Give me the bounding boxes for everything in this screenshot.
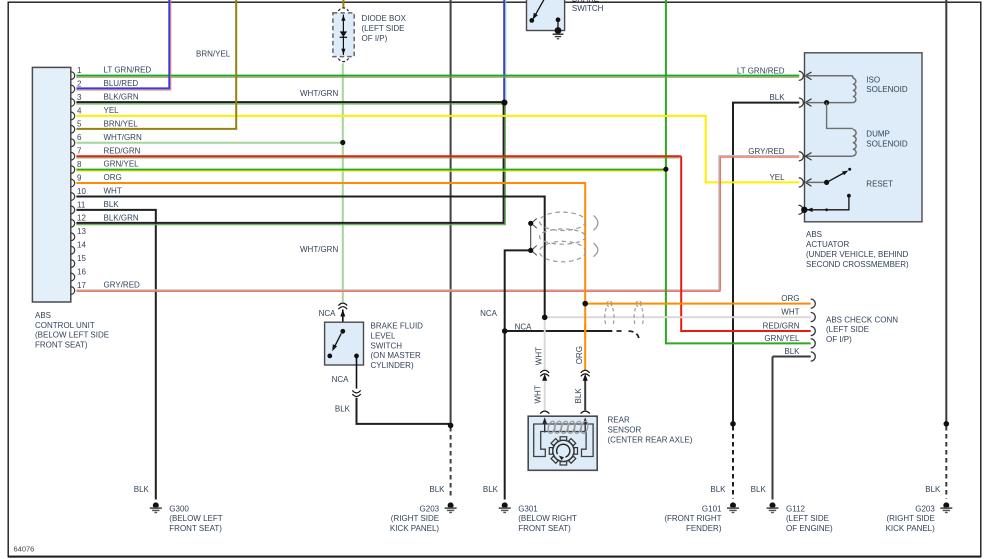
rear sensor box [528,416,597,470]
svg-text:10: 10 [77,187,86,196]
wire BLK shield NCA stub [505,331,639,339]
svg-text:G101: G101 [702,504,722,513]
ABS check connector caption [826,315,898,344]
svg-text:WHT: WHT [534,385,543,403]
junction WHT [542,315,548,321]
svg-text:YEL: YEL [769,173,785,182]
shielded cable twisted pair symbol [540,212,598,262]
svg-text:16: 16 [77,267,86,276]
wire pin5 BRN/YEL up to top edge [76,0,236,129]
svg-text:ACTUATOR: ACTUATOR [806,240,849,249]
wire pin6 WHT/GRN to junction [76,142,342,144]
svg-text:BLK: BLK [784,347,800,356]
NCA labels [319,309,337,318]
ABS actuator box [805,53,923,222]
pin 15 terminal arc and number [71,254,87,267]
pin 9 terminal arc and number [71,173,122,187]
ground G101 at x=733 [664,485,739,533]
svg-text:REAR: REAR [608,416,630,425]
svg-text:FRONT SEAT): FRONT SEAT) [35,341,88,350]
ABS actuator pin GRY/RED [799,152,812,161]
svg-text:8: 8 [77,160,82,169]
junction brake switch BLK/GRN [501,100,507,106]
junction shield drain G301 [502,328,508,334]
pin 17 terminal arc and number [71,281,140,295]
svg-text:(RIGHT SIDE: (RIGHT SIDE [886,514,934,523]
svg-text:BRN/YEL: BRN/YEL [104,119,139,128]
rear sensor caption [608,416,693,445]
svg-text:13: 13 [77,227,86,236]
svg-text:NCA: NCA [515,322,533,331]
svg-text:GRN/YEL: GRN/YEL [764,334,800,343]
svg-text:1: 1 [77,66,82,75]
svg-text:(FRONT RIGHT: (FRONT RIGHT [664,514,721,523]
svg-text:BLK: BLK [104,200,120,209]
svg-text:64076: 64076 [14,545,35,554]
svg-text:KICK PANEL): KICK PANEL) [886,524,936,533]
svg-text:12: 12 [77,214,86,223]
label WHT/GRN upper [300,89,338,98]
wire GRN/YEL vertical upper segment from top edge [665,0,667,172]
svg-text:ORG: ORG [575,346,584,364]
brake switch (top, partially cut) [527,0,565,39]
diode box caption [362,14,407,43]
svg-text:(BELOW LEFT: (BELOW LEFT [169,514,222,523]
junction brake fluid BLK [448,423,454,429]
svg-text:ORG: ORG [781,294,799,303]
wire BLK from ABS check connector down to ground G112 [773,357,811,500]
svg-text:11: 11 [77,200,86,209]
pin 11 terminal arc and number [71,200,119,214]
rear sensor connector caps above box [540,411,590,414]
wire BLK shield drain down to ground G301 [505,250,531,499]
svg-text:YEL: YEL [104,106,120,115]
junction G203 right splice [944,421,950,427]
svg-text:5: 5 [77,120,82,129]
svg-text:(BELOW LEFT SIDE: (BELOW LEFT SIDE [35,331,109,340]
svg-text:FENDER): FENDER) [686,524,722,533]
wire pin7 RED/GRN vertical to ABS check connector [681,156,811,331]
wire pin11 BLK down to ground G300 [76,210,155,500]
dump solenoid [805,103,856,157]
ABS actuator pin YEL with RESET switch [799,168,852,215]
brake fluid level switch caption [371,322,424,370]
wire BLU/GRN from brake switch top edge down to junction [504,0,506,103]
svg-text:ABS: ABS [35,311,51,320]
ABS actuator pin BLK [799,98,853,107]
svg-text:BLK/GRN: BLK/GRN [104,93,139,102]
wire BRN/YEL stub above diode box [342,0,344,8]
svg-text:WHT/GRN: WHT/GRN [300,89,338,98]
ABS check connector wire labels [763,294,801,356]
svg-text:(BELOW RIGHT: (BELOW RIGHT [518,514,577,523]
svg-text:LT GRN/RED: LT GRN/RED [737,67,785,76]
svg-text:BLK: BLK [483,485,499,494]
vertical wire labels WHT WHT ORG BLK [535,347,544,365]
drawing number [14,545,35,554]
svg-text:BLK: BLK [710,485,726,494]
svg-text:ABS CHECK CONN: ABS CHECK CONN [826,315,898,324]
ABS actuator internal labels [866,75,908,188]
wire BLK vertical from top edge down to ground G203 left [450,0,452,499]
shield drain crimp marks [528,218,537,255]
wire WHT vertical down to inline connector [544,317,546,370]
svg-text:CYLINDER): CYLINDER) [371,361,414,370]
svg-text:SENSOR: SENSOR [608,426,642,435]
wire BLK vertical at right edge down to ground G203 right [945,0,947,499]
svg-text:9: 9 [77,173,82,182]
ground G301 at x=504.7 [483,485,577,533]
svg-text:GRY/RED: GRY/RED [748,147,785,156]
svg-text:SWITCH: SWITCH [371,341,403,350]
svg-text:RED/GRN: RED/GRN [763,322,800,331]
svg-text:G203: G203 [915,504,935,513]
wire pin10 WHT (drawn dark) right and down to junction [76,197,544,318]
svg-text:BLK/GRN: BLK/GRN [104,213,139,222]
ground G112 at x=772.5 [751,485,833,533]
pin 5 terminal arc and number [71,119,138,133]
svg-text:2: 2 [77,79,82,88]
wire ORG overlay at drain crossing [584,324,586,338]
wire pin17 GRY/RED to ABS actuator DUMP solenoid [76,156,799,292]
label BRN/YEL [196,50,231,59]
svg-text:SOLENOID: SOLENOID [866,85,908,94]
svg-text:(LEFT SIDE: (LEFT SIDE [786,514,829,523]
svg-text:CONTROL UNIT: CONTROL UNIT [35,321,95,330]
svg-text:G203: G203 [420,504,440,513]
wire BLK from ORG inline connector down to rear sensor [584,378,586,411]
ABS check connector terminals [811,299,816,361]
ABS actuator caption [806,230,909,269]
svg-text:OF ENGINE): OF ENGINE) [786,524,833,533]
pin 12 terminal arc and number [71,213,139,227]
pin 14 terminal arc and number [71,241,87,255]
svg-text:SWITCH: SWITCH [572,4,604,13]
svg-text:BLK: BLK [429,485,445,494]
wire WHT from inline connector down to rear sensor [544,378,546,411]
pin 3 terminal arc and number [71,93,139,107]
svg-text:LT GRN/RED: LT GRN/RED [104,66,152,75]
brake fluid level switch box [325,322,364,388]
svg-text:(LEFT SIDE: (LEFT SIDE [362,24,405,33]
svg-text:NCA: NCA [319,309,337,318]
svg-text:BLU/RED: BLU/RED [104,79,139,88]
svg-text:7: 7 [77,147,82,156]
svg-text:WHT: WHT [781,308,799,317]
svg-text:BLK: BLK [769,93,785,102]
inline connector at x=544.7 above rear sensor [540,370,549,381]
svg-text:WHT: WHT [535,347,544,365]
svg-text:BRAKE FLUID: BRAKE FLUID [371,322,424,331]
svg-text:BLK: BLK [925,485,941,494]
inline connector NCA below brake fluid level switch [352,390,360,396]
svg-text:DUMP: DUMP [866,130,890,139]
pin 7 terminal arc and number [71,146,141,160]
svg-text:6: 6 [77,133,82,142]
ABS control unit connector box [32,67,70,302]
pin 1 terminal arc and number [71,66,152,80]
svg-text:FRONT SEAT): FRONT SEAT) [169,524,222,533]
svg-text:4: 4 [77,106,82,115]
svg-text:FRONT SEAT): FRONT SEAT) [518,524,571,533]
svg-text:SECOND CROSSMEMBER): SECOND CROSSMEMBER) [806,260,909,269]
svg-text:ABS: ABS [806,230,822,239]
svg-text:BLK: BLK [134,485,150,494]
ABS control unit caption [35,311,109,350]
wire BLK from brake fluid level switch to junction [357,398,451,424]
dashed inline connector symbols on WHT wire [605,301,644,327]
svg-text:(LEFT SIDE: (LEFT SIDE [826,325,869,334]
ABS actuator pin LT GRN/RED with ISO solenoid [799,71,856,102]
wire ORG continues down to inline connector [584,304,586,371]
brake switch caption [572,0,604,13]
inline connector at x=585.2 above rear sensor [581,370,590,381]
svg-text:G301: G301 [518,504,538,513]
pin 10 terminal arc and number [71,187,122,201]
pin 8 terminal arc and number [71,160,139,174]
wire GRN/YEL lower segment to ABS check connector [666,168,811,343]
svg-text:14: 14 [77,241,86,250]
svg-text:OF I/P): OF I/P) [826,335,852,344]
svg-text:17: 17 [77,281,86,290]
wire WHT horizontal to ABS check connector [545,316,811,318]
svg-text:RESET: RESET [866,180,893,189]
svg-text:(RIGHT SIDE: (RIGHT SIDE [391,514,439,523]
svg-text:G300: G300 [169,504,189,513]
svg-text:(ON MASTER: (ON MASTER [371,351,421,360]
wire pin4 YEL to ABS actuator RESET [76,116,799,182]
wire pin3 BLK/GRN to junction with brake switch wire [76,102,504,104]
pin 2 terminal arc and number [71,79,139,93]
svg-text:NCA: NCA [332,375,350,384]
wire pin9 ORG to junction and ABS check connector [76,183,810,304]
wire pin12 BLK/GRN right then up to junction [76,103,505,225]
wire pin7 RED/GRN horizontal [76,156,681,158]
wire pin2 BLU/RED up to top edge [76,0,170,90]
svg-text:LEVEL: LEVEL [371,331,396,340]
svg-text:ISO: ISO [866,75,880,84]
pin 6 terminal arc and number [71,133,142,147]
wire BLK from ABS actuator down to ground G101 [733,103,799,499]
svg-text:GRY/RED: GRY/RED [104,281,141,290]
wire shield drain thin link [530,223,532,250]
svg-text:KICK PANEL): KICK PANEL) [390,524,440,533]
svg-text:BLK: BLK [751,485,767,494]
diode box (left side of I/P) [333,8,354,62]
ground G300 at x=155.8 [134,485,223,533]
junction pin6 WHT/GRN [340,140,345,145]
inline connector NCA above brake fluid level switch [338,303,347,322]
svg-text:OF I/P): OF I/P) [362,34,388,43]
ground G203 at x=450.6 [390,485,457,533]
svg-text:(CENTER REAR AXLE): (CENTER REAR AXLE) [608,435,693,444]
junction ORG [582,301,588,307]
svg-text:(UNDER VEHICLE, BEHIND: (UNDER VEHICLE, BEHIND [806,250,908,259]
svg-text:BRN/YEL: BRN/YEL [196,50,231,59]
wire pin8 GRN/YEL to junction [76,170,666,172]
label WHT/GRN lower [300,245,338,254]
svg-text:WHT/GRN: WHT/GRN [104,133,142,142]
svg-text:GRN/YEL: GRN/YEL [104,160,140,169]
junction G101 splice [730,421,736,427]
pin 16 terminal arc and number [71,267,87,280]
svg-text:3: 3 [77,93,82,102]
svg-text:15: 15 [77,254,86,263]
pin 4 terminal arc and number [71,106,119,120]
BLK label below connector [335,405,351,414]
svg-text:DIODE BOX: DIODE BOX [362,14,407,23]
ground G203 at x=946.3 [886,485,953,533]
pin 13 terminal arc and number [71,227,87,241]
svg-text:WHT/GRN: WHT/GRN [300,245,338,254]
svg-text:NCA: NCA [480,309,498,318]
wire pin1 LT GRN/RED to ABS actuator ISO solenoid [76,76,799,78]
svg-text:BLK: BLK [574,388,583,404]
svg-text:WHT: WHT [104,187,122,196]
svg-text:G112: G112 [786,504,806,513]
actuator wire labels [737,67,785,182]
wire WHT/GRN vertical from diode box down to brake fluid level switch [342,63,344,302]
svg-text:SOLENOID: SOLENOID [866,139,908,148]
svg-text:RED/GRN: RED/GRN [104,146,141,155]
junction GRN/YEL [663,167,668,172]
svg-text:ORG: ORG [104,173,122,182]
svg-text:BLK: BLK [335,405,351,414]
